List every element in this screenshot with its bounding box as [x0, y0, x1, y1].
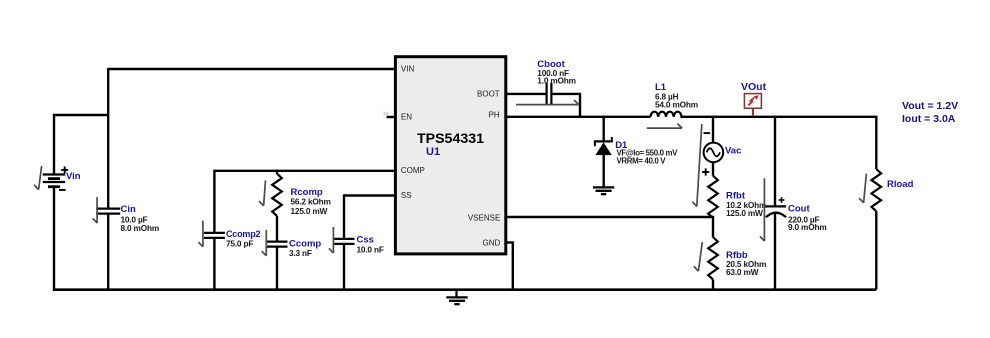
svg-text:63.0 mW: 63.0 mW [726, 267, 759, 277]
ground bus [446, 290, 467, 305]
wire battery top [53, 114, 55, 175]
label Vac [725, 145, 741, 156]
svg-text:8.0 mOhm: 8.0 mOhm [121, 223, 160, 233]
label L1 [655, 82, 698, 109]
label Ccomp [289, 238, 321, 257]
label VOut [741, 81, 767, 93]
svg-text:VOut: VOut [741, 81, 767, 93]
battery plus sign [61, 166, 68, 173]
svg-text:Cin: Cin [121, 204, 137, 215]
resistor Rcomp arrow [259, 180, 265, 205]
resistor Rfbb [708, 237, 718, 279]
capacitor Ccomp [267, 242, 288, 247]
capacitor Cin arrow [93, 197, 98, 223]
label Cboot [537, 59, 576, 85]
wire VSENSE [507, 216, 715, 218]
wire Vac to Rfbt [712, 162, 714, 176]
wire BOOT right [551, 93, 580, 95]
wire PH [507, 116, 651, 118]
svg-text:SS: SS [401, 191, 412, 200]
wire Rload bottom [875, 211, 877, 289]
capacitor Cout [766, 206, 786, 217]
probe VOut [744, 94, 761, 116]
svg-text:Vac: Vac [725, 145, 741, 156]
label D1 [615, 140, 678, 165]
inductor L1 [651, 112, 682, 117]
svg-text:Vin: Vin [66, 171, 81, 182]
resistor Rfbb arrow [694, 242, 702, 271]
capacitor Cin [96, 209, 120, 214]
wire Cin top [107, 68, 109, 209]
wire output rail [681, 116, 877, 118]
resistor Rload [872, 169, 882, 211]
wire Rload top [875, 116, 877, 169]
wire COMP [214, 170, 394, 172]
wire BOOT to PH [579, 93, 581, 117]
svg-text:Cout: Cout [788, 204, 810, 215]
wire D1 to ground [603, 154, 605, 187]
capacitor Ccomp2 arrow [198, 221, 203, 247]
capacitor Cboot arrow [516, 100, 579, 105]
svg-text:54.0 mOhm: 54.0 mOhm [655, 99, 698, 109]
label Cout [788, 204, 827, 232]
wire Css bottom [343, 244, 345, 290]
wire D1 top [603, 116, 605, 141]
battery Vin symbol [43, 175, 65, 187]
wire GND stub [507, 241, 513, 243]
pin PH [489, 111, 500, 120]
pin VSENSE [468, 213, 500, 222]
resistor Rcomp [272, 174, 282, 216]
resistor Rfbt [708, 176, 718, 218]
op-amp U1 TPS54331 body [395, 57, 505, 254]
battery minus sign [59, 189, 66, 191]
svg-text:TPS54331: TPS54331 [417, 131, 484, 147]
capacitor Cboot [547, 83, 552, 105]
capacitor Css [334, 239, 355, 244]
wire EN stub [387, 116, 395, 118]
wire Rfbb link [712, 216, 714, 237]
ground D1 [593, 187, 614, 194]
resistor Rload arrow [859, 174, 866, 203]
wire Rcomp to Ccomp [276, 216, 278, 242]
svg-text:EN: EN [401, 112, 412, 121]
label Rfbt [726, 191, 766, 218]
inductor L1 arrow [647, 124, 682, 129]
pin SS [401, 191, 412, 200]
source Vac arrow [692, 124, 702, 206]
svg-text:10.0 nF: 10.0 nF [357, 244, 384, 254]
capacitor Css arrow [329, 227, 334, 253]
svg-text:125.0 mW: 125.0 mW [291, 206, 328, 216]
capacitor Ccomp arrow [262, 230, 267, 256]
Cout plus sign [779, 197, 785, 203]
svg-text:125.0 mW: 125.0 mW [726, 208, 763, 218]
label Ccomp2 [226, 229, 261, 248]
svg-text:3.3 nF: 3.3 nF [289, 248, 312, 258]
label Rfbb [726, 250, 766, 277]
svg-text:1.0 mOhm: 1.0 mOhm [537, 75, 576, 85]
pin EN [401, 112, 412, 121]
diode D1 [594, 137, 613, 155]
label Rload [887, 179, 914, 190]
Vac minus sign [704, 132, 711, 134]
svg-text:PH: PH [489, 111, 500, 120]
wire Rfbb bottom [712, 279, 714, 289]
svg-text:U1: U1 [426, 146, 440, 158]
svg-text:75.0 pF: 75.0 pF [226, 238, 253, 248]
label Css [357, 234, 384, 254]
svg-text:VSENSE: VSENSE [468, 213, 500, 222]
wire Ccomp2 top [213, 170, 215, 233]
wire Cout bottom [774, 213, 776, 290]
wire Ccomp2 bottom [213, 238, 215, 290]
source Vac [704, 143, 724, 163]
wire Rcomp top stub [276, 170, 278, 174]
pin BOOT [477, 89, 500, 98]
Vac plus sign [702, 168, 709, 175]
svg-text:COMP: COMP [401, 166, 425, 175]
wire VIN top rail [108, 68, 394, 70]
svg-text:Iout = 3.0A: Iout = 3.0A [902, 113, 956, 125]
wire ground bus [53, 288, 876, 291]
svg-text:56.2 kOhm: 56.2 kOhm [291, 197, 331, 207]
battery Vin arrow [34, 166, 42, 190]
svg-text:VRRM= 40.0 V: VRRM= 40.0 V [617, 156, 667, 165]
wire GND down [512, 241, 514, 289]
svg-text:BOOT: BOOT [477, 89, 500, 98]
wire battery to Cin branch [53, 114, 108, 116]
wire Cout top [774, 116, 776, 207]
wire Cin bottom [107, 214, 109, 290]
node annotation Vout/Iout [902, 100, 958, 125]
capacitor Cout arrow [760, 178, 765, 241]
pin COMP [401, 166, 425, 175]
svg-text:VIN: VIN [401, 64, 415, 73]
wire Css top [343, 194, 345, 239]
wire Vac top [712, 116, 714, 143]
svg-text:Rload: Rload [887, 179, 914, 190]
svg-text:GND: GND [483, 238, 501, 247]
label Rcomp [291, 187, 331, 216]
svg-text:9.0 mOhm: 9.0 mOhm [788, 222, 827, 232]
label Vin [66, 171, 81, 182]
pin GND [483, 238, 501, 247]
no-connect mark EN [383, 112, 389, 116]
wire SS [344, 194, 395, 196]
svg-text:Vout = 1.2V: Vout = 1.2V [902, 100, 958, 112]
wire Ccomp bottom [276, 247, 278, 290]
label Cin [121, 204, 160, 233]
wire BOOT left [507, 93, 547, 95]
capacitor Ccomp2 [204, 233, 225, 238]
wire battery bottom [53, 187, 55, 291]
pin VIN [401, 64, 415, 73]
